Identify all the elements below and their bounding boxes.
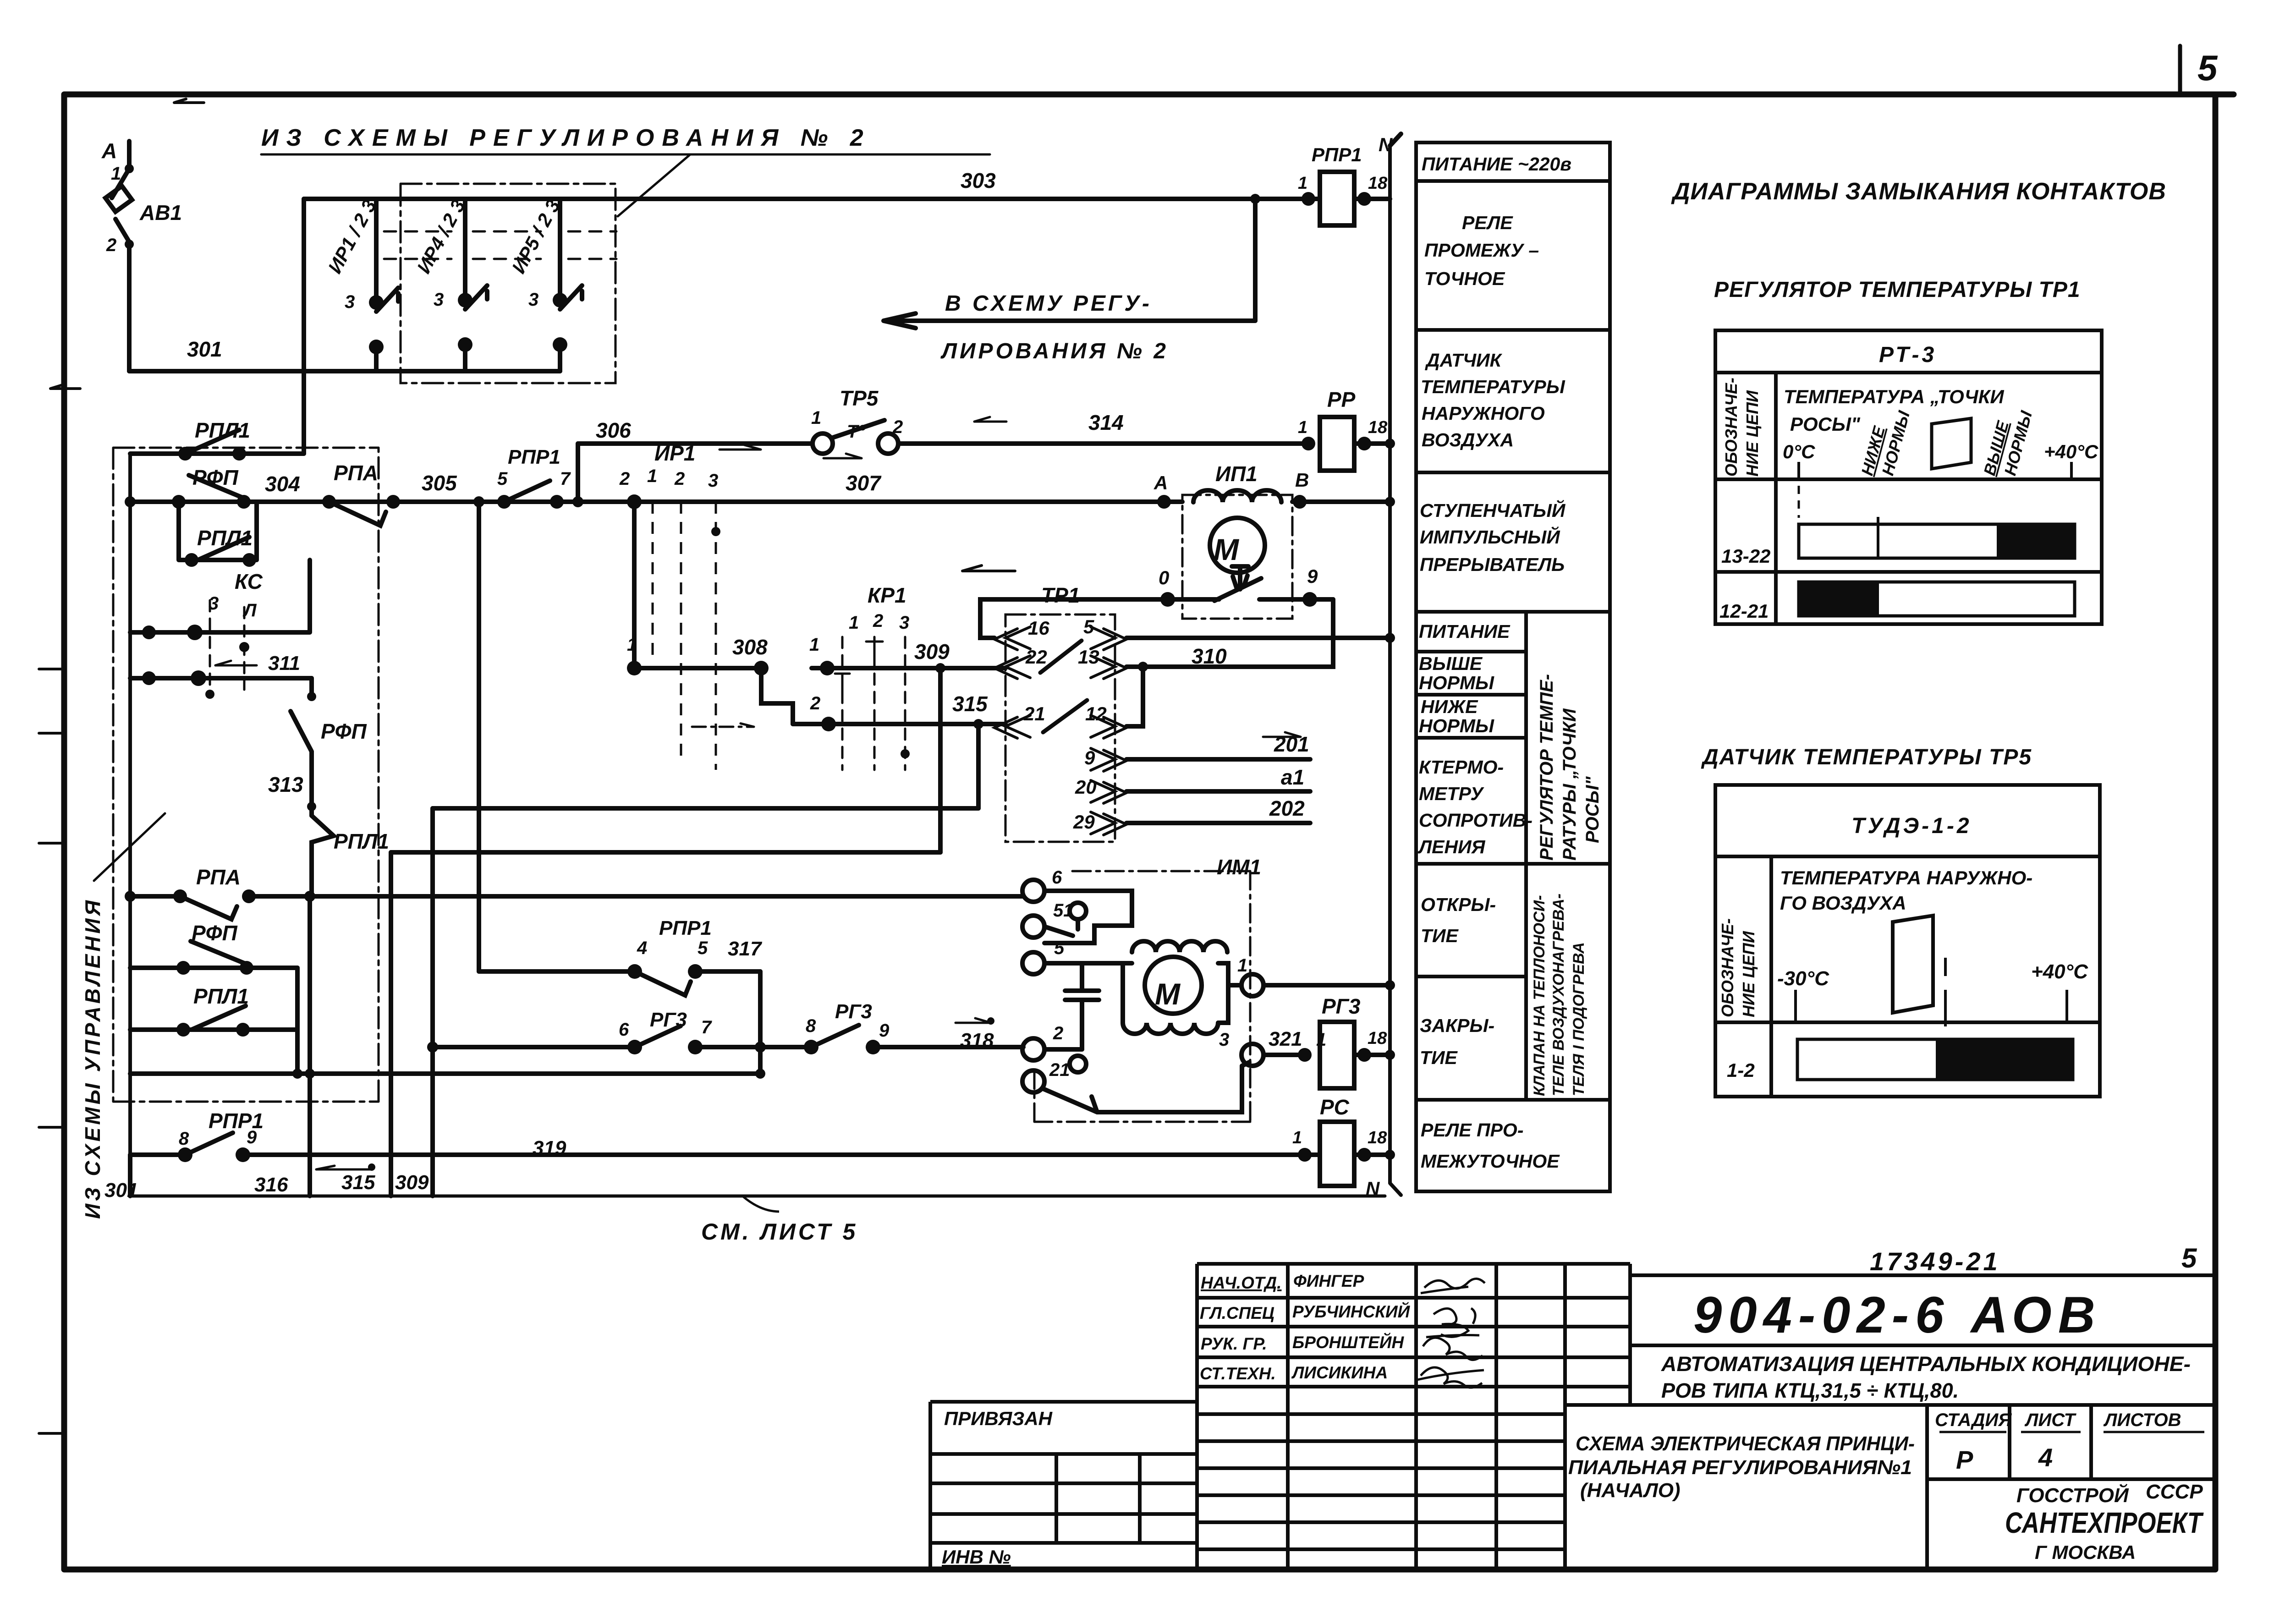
breaker AB1	[105, 169, 132, 242]
contact 12-21 bar	[1799, 582, 2075, 616]
svg-text:В СХЕМУ РЕГУ-: В СХЕМУ РЕГУ-	[945, 291, 1152, 316]
svg-text:6: 6	[1052, 867, 1062, 888]
wire 308	[634, 666, 761, 670]
N line top tick	[1390, 134, 1401, 146]
svg-text:ИМПУЛЬСНЫЙ: ИМПУЛЬСНЫЙ	[1420, 526, 1560, 548]
wire 303 junction drop	[1253, 199, 1258, 321]
leader line to note	[618, 155, 690, 216]
svg-text:СМ. ЛИСТ 5: СМ. ЛИСТ 5	[701, 1219, 858, 1245]
svg-text:А: А	[1153, 472, 1168, 494]
svg-text:+40°С: +40°С	[2044, 441, 2098, 462]
svg-text:21: 21	[1023, 703, 1045, 724]
svg-text:201: 201	[1274, 732, 1309, 756]
308 jog down	[761, 668, 793, 724]
svg-text:ГО ВОЗДУХА: ГО ВОЗДУХА	[1780, 892, 1906, 914]
svg-text:РЕЛЕ ПРО-: РЕЛЕ ПРО-	[1421, 1119, 1523, 1141]
svg-text:20: 20	[1075, 776, 1097, 798]
contact RG3 8-9 / 318	[760, 1025, 1023, 1047]
svg-text:СТУПЕНЧАТЫЙ: СТУПЕНЧАТЫЙ	[1420, 499, 1566, 521]
svg-text:СОПРОТИВ-: СОПРОТИВ-	[1419, 810, 1532, 831]
chevron 21	[994, 715, 1030, 738]
svg-text:ТУДЭ-1-2: ТУДЭ-1-2	[1851, 814, 1972, 838]
left bus vertical	[128, 454, 132, 1196]
relay coil PP	[1320, 417, 1354, 471]
terminal 51	[1022, 916, 1044, 938]
chevron 5 out	[1091, 627, 1126, 650]
svg-text:СССР: СССР	[2146, 1481, 2203, 1503]
svg-text:ЛИРОВАНИЯ № 2: ЛИРОВАНИЯ № 2	[940, 339, 1169, 363]
wire 306	[578, 441, 813, 446]
svg-text:3: 3	[708, 471, 718, 491]
svg-text:КТЕРМО-: КТЕРМО-	[1419, 757, 1504, 778]
heater stepped outline	[1044, 891, 1132, 943]
relay coil RG3	[1320, 1022, 1354, 1088]
IR1 contact column	[376, 199, 398, 371]
svg-text:РПА: РПА	[334, 461, 378, 485]
interrupter contact	[1214, 566, 1261, 601]
svg-text:САНТЕХПРОЕКТ: САНТЕХПРОЕКТ	[2005, 1506, 2204, 1539]
arrow 315 bottom	[316, 1166, 372, 1169]
svg-text:НАЧ.ОТД.: НАЧ.ОТД.	[1201, 1273, 1281, 1292]
svg-text:ЛИСТ: ЛИСТ	[2024, 1410, 2077, 1430]
svg-text:ФИНГЕР: ФИНГЕР	[1293, 1272, 1364, 1290]
motor coil top	[1123, 941, 1227, 963]
svg-text:1: 1	[811, 408, 821, 428]
wire 310	[1126, 599, 1333, 667]
wire 202	[1126, 821, 1310, 825]
svg-text:а1: а1	[1281, 765, 1304, 789]
svg-text:РПР1: РПР1	[1312, 144, 1362, 165]
svg-text:ОБОЗНАЧЕ-: ОБОЗНАЧЕ-	[1722, 378, 1741, 477]
wire 318 long row	[130, 1071, 760, 1076]
KS dashed columns	[210, 600, 244, 690]
svg-text:РОСЫ": РОСЫ"	[1582, 776, 1603, 843]
wire 2 into box	[1044, 1047, 1082, 1052]
svg-text:ВОЗДУХА: ВОЗДУХА	[1422, 429, 1514, 450]
KP1 row 2 / 315	[793, 722, 1005, 726]
svg-text:8: 8	[806, 1016, 816, 1036]
small circle 51	[1070, 903, 1086, 919]
svg-text:РПЛ1: РПЛ1	[197, 526, 253, 550]
svg-text:СТАДИЯ: СТАДИЯ	[1935, 1410, 2012, 1430]
svg-text:ЛИСИКИНА: ЛИСИКИНА	[1291, 1363, 1388, 1382]
svg-text:Т°: Т°	[847, 422, 866, 442]
thermal contact TP5	[813, 433, 833, 454]
svg-text:ГЛ.СПЕЦ: ГЛ.СПЕЦ	[1200, 1304, 1274, 1322]
contact RPR1 5-7	[504, 481, 557, 502]
IR block dash-dot box	[401, 184, 615, 383]
title block main frame	[1630, 1264, 2215, 1405]
small circle 21	[1070, 1056, 1086, 1072]
svg-text:5: 5	[698, 938, 708, 958]
svg-text:2: 2	[873, 611, 883, 631]
wire A into block	[1164, 499, 1182, 504]
chevron 22	[994, 656, 1030, 679]
contact RPL1 row1	[130, 430, 304, 454]
svg-text:309: 309	[395, 1171, 429, 1194]
privyazan box	[930, 1402, 1197, 1569]
315 drop	[976, 724, 981, 808]
wire 314	[898, 441, 1308, 446]
svg-text:3: 3	[528, 290, 538, 310]
svg-text:НИЕ ЦЕПИ: НИЕ ЦЕПИ	[1743, 390, 1762, 477]
terminal 5	[1022, 952, 1044, 974]
wire 303 top	[304, 197, 1308, 201]
svg-text:N: N	[1366, 1178, 1380, 1199]
svg-text:307: 307	[846, 471, 882, 495]
svg-text:РЕЛЕ: РЕЛЕ	[1462, 212, 1513, 233]
TP1 dash-dot box	[1005, 614, 1115, 842]
vertical 317 from main row	[477, 502, 481, 971]
contact RFP main row	[179, 475, 244, 502]
svg-text:1: 1	[1298, 174, 1307, 193]
svg-text:ТОЧНОЕ: ТОЧНОЕ	[1424, 268, 1505, 289]
motor M circle	[1210, 518, 1265, 573]
wire 311 row	[130, 676, 312, 680]
svg-text:7: 7	[701, 1017, 712, 1037]
stage columns	[1927, 1405, 2091, 1569]
svg-text:0: 0	[1159, 567, 1169, 588]
row lines	[1416, 181, 1610, 1100]
svg-text:М: М	[1155, 977, 1181, 1011]
svg-text:ПИТАНИЕ: ПИТАНИЕ	[1419, 621, 1511, 642]
wire 305	[393, 499, 504, 504]
wire B to N	[1292, 499, 1390, 504]
relay coil RPR1	[1320, 172, 1354, 225]
wire 304	[244, 499, 329, 504]
svg-text:РТ-3: РТ-3	[1879, 343, 1937, 367]
svg-text:4: 4	[2038, 1443, 2053, 1472]
svg-text:РОСЫ": РОСЫ"	[1790, 413, 1861, 435]
bottom line to sheet 5	[130, 1195, 1385, 1198]
svg-text:ИНВ №: ИНВ №	[942, 1546, 1011, 1568]
svg-text:МЕЖУТОЧНОЕ: МЕЖУТОЧНОЕ	[1421, 1151, 1560, 1172]
scale ticks TUDE	[1796, 958, 2067, 1026]
svg-text:12: 12	[1085, 703, 1107, 724]
svg-text:ЗАКРЫ-: ЗАКРЫ-	[1420, 1015, 1494, 1036]
IR block dashed rows	[384, 231, 616, 259]
parallelogram symbol PT3	[1932, 418, 1971, 469]
svg-text:ТЕЛЯ I ПОДОГРЕВА: ТЕЛЯ I ПОДОГРЕВА	[1570, 942, 1587, 1096]
svg-text:ТР5: ТР5	[840, 386, 879, 410]
svg-text:ИП1: ИП1	[1215, 462, 1258, 486]
svg-text:ВЫШЕ: ВЫШЕ	[1419, 653, 1483, 674]
wire H1 315	[433, 806, 978, 811]
junction dots top-left	[125, 164, 134, 173]
signature rows text	[1200, 1272, 1411, 1383]
svg-text:1: 1	[111, 164, 121, 184]
svg-text:904-02-6 АОВ: 904-02-6 АОВ	[1693, 1286, 2102, 1344]
svg-text:1: 1	[647, 466, 657, 486]
svg-text:2: 2	[892, 417, 903, 437]
wire 301	[129, 369, 560, 373]
contact RFP row2	[130, 941, 297, 968]
contact RFP chain	[291, 678, 312, 807]
wire 5 row to N	[1126, 636, 1390, 640]
main row segment left	[130, 499, 179, 504]
svg-text:2: 2	[106, 235, 116, 255]
motor frame	[1082, 963, 1228, 1023]
svg-text:ИМ1: ИМ1	[1217, 855, 1261, 879]
svg-text:НОРМЫ: НОРМЫ	[1419, 715, 1494, 736]
svg-text:311: 311	[268, 652, 300, 675]
svg-text:1-2: 1-2	[1727, 1059, 1755, 1081]
dash-dot arrow 308	[692, 722, 754, 727]
svg-text:9: 9	[1307, 565, 1318, 587]
inner divider	[1524, 612, 1528, 1100]
svg-text:ПРЕРЫВАТЕЛЬ: ПРЕРЫВАТЕЛЬ	[1420, 554, 1565, 575]
svg-text:СТ.ТЕХН.: СТ.ТЕХН.	[1200, 1364, 1276, 1383]
svg-text:4: 4	[637, 938, 647, 958]
terminal 1	[1241, 974, 1263, 996]
svg-text:29: 29	[1073, 811, 1095, 833]
svg-text:ДИАГРАММЫ ЗАМЫКАНИЯ КОНТАКТОВ: ДИАГРАММЫ ЗАМЫКАНИЯ КОНТАКТОВ	[1671, 178, 2166, 205]
svg-text:НАРУЖНОГО: НАРУЖНОГО	[1422, 403, 1545, 424]
IR4 contact column	[465, 199, 487, 371]
svg-text:16: 16	[1028, 617, 1049, 639]
contact RG3 6-7	[433, 1026, 760, 1047]
svg-text:2: 2	[674, 469, 685, 489]
vertical 313 chain to bottom	[308, 896, 312, 1196]
wire 16 to 0-node	[980, 599, 1157, 638]
riser 306	[576, 444, 580, 502]
svg-text:РПЛ1: РПЛ1	[334, 829, 389, 853]
svg-text:ТИЕ: ТИЕ	[1420, 1047, 1458, 1068]
IR5 contact column	[560, 199, 582, 371]
svg-text:(НАЧАЛО): (НАЧАЛО)	[1580, 1479, 1681, 1502]
wire 12 riser to 310	[1126, 667, 1143, 726]
svg-text:9: 9	[1084, 747, 1095, 768]
svg-text:8: 8	[179, 1129, 189, 1149]
svg-text:Л: Л	[242, 600, 257, 620]
N vertical line	[1390, 146, 1401, 1195]
svg-text:1: 1	[849, 613, 859, 633]
scale ticks PT3	[1799, 462, 2071, 479]
svg-text:РПЛ1: РПЛ1	[193, 984, 249, 1008]
svg-text:РУК. ГР.: РУК. ГР.	[1201, 1334, 1267, 1353]
svg-text:ТЕМПЕРАТУРА „ТОЧКИ: ТЕМПЕРАТУРА „ТОЧКИ	[1784, 386, 2004, 407]
arrow line to scheme N2	[884, 313, 1255, 328]
wire 21 branch to 3	[1097, 1066, 1242, 1112]
svg-text:ПИТАНИЕ ~220в: ПИТАНИЕ ~220в	[1422, 154, 1571, 175]
svg-text:ЛИСТОВ: ЛИСТОВ	[2103, 1410, 2181, 1430]
signatures squiggles	[1415, 1278, 1485, 1388]
svg-text:ПРИВЯЗАН: ПРИВЯЗАН	[944, 1408, 1053, 1429]
svg-text:318: 318	[960, 1029, 994, 1052]
svg-text:310: 310	[1192, 644, 1227, 668]
svg-text:ТЕМПЕРАТУРЫ: ТЕМПЕРАТУРЫ	[1421, 376, 1565, 397]
svg-text:0°С: 0°С	[1783, 441, 1815, 462]
direction arrow	[962, 565, 1015, 571]
KP1 row 1 / 309	[812, 666, 1005, 670]
svg-text:РГ3: РГ3	[650, 1009, 687, 1031]
chevron 20 out	[1091, 780, 1126, 803]
svg-text:ОБОЗНАЧЕ-: ОБОЗНАЧЕ-	[1718, 918, 1737, 1017]
IP1 dash-dot box	[1182, 495, 1292, 619]
svg-text:3: 3	[434, 290, 444, 310]
svg-text:18: 18	[1368, 1029, 1387, 1048]
wire 316	[310, 894, 1023, 899]
contact RPA row 316	[130, 896, 310, 919]
parallelogram symbol TUDE	[1893, 916, 1933, 1013]
terminal 3	[1241, 1044, 1263, 1066]
KP1 T symbols	[835, 642, 883, 694]
svg-text:306: 306	[596, 418, 631, 442]
svg-text:3: 3	[899, 613, 909, 633]
terminal 6	[1022, 880, 1044, 902]
svg-text:1: 1	[1292, 1128, 1302, 1147]
wire 201	[1126, 757, 1310, 762]
arrow 318	[956, 1018, 991, 1023]
309 drop from KP1 row	[938, 668, 943, 852]
svg-text:22: 22	[1025, 646, 1047, 668]
svg-text:ЛЕНИЯ: ЛЕНИЯ	[1417, 836, 1486, 857]
brace see sheet 5	[742, 1196, 779, 1212]
note underline	[261, 154, 990, 156]
svg-text:1: 1	[627, 635, 637, 655]
svg-text:305: 305	[422, 471, 457, 495]
table frame	[1416, 143, 1610, 1191]
svg-text:2: 2	[810, 693, 820, 713]
motor M2 circle	[1145, 957, 1202, 1014]
node A terminal	[127, 141, 132, 169]
svg-text:1: 1	[1298, 418, 1307, 437]
wire into coil	[1308, 197, 1390, 201]
svg-text:ИЗ СХЕМЫ УПРАВЛЕНИЯ: ИЗ СХЕМЫ УПРАВЛЕНИЯ	[81, 898, 104, 1219]
svg-text:9: 9	[879, 1020, 890, 1041]
contact 21-12	[1043, 700, 1087, 732]
inductor arcs	[1193, 490, 1281, 502]
leader line	[94, 813, 165, 881]
svg-text:3: 3	[209, 593, 219, 614]
terminal 2	[1022, 1038, 1044, 1060]
svg-text:13-22: 13-22	[1721, 545, 1770, 567]
wire H2 309	[391, 850, 940, 855]
svg-text:РР: РР	[1327, 388, 1356, 411]
svg-text:319: 319	[533, 1137, 566, 1159]
svg-text:РФП: РФП	[192, 921, 238, 945]
main row to IP1	[557, 499, 1164, 504]
svg-text:АВТОМАТИЗАЦИЯ ЦЕНТРАЛЬНЫХ КО: АВТОМАТИЗАЦИЯ ЦЕНТРАЛЬНЫХ КОНДИЦИОНЕ-	[1661, 1352, 2191, 1376]
wire from AB1 node 2 down	[127, 242, 132, 371]
junction dots left rows	[178, 447, 192, 461]
direction arrows TP5	[720, 445, 862, 458]
svg-text:РПР1: РПР1	[659, 917, 712, 939]
chevron 29 out	[1091, 812, 1126, 835]
wire 9 node	[1259, 597, 1333, 602]
signature table	[1197, 1262, 1630, 1266]
svg-text:МЕТРУ: МЕТРУ	[1419, 783, 1484, 804]
svg-text:РФП: РФП	[192, 466, 239, 489]
bus to bottom corner	[128, 1155, 132, 1196]
svg-text:315: 315	[952, 692, 988, 716]
svg-text:303: 303	[961, 169, 996, 192]
svg-text:301: 301	[187, 337, 222, 361]
wire a1	[1126, 789, 1310, 794]
riser 317 to RG3 row	[758, 971, 763, 1074]
capacitor	[1044, 963, 1099, 1049]
svg-text:7: 7	[560, 469, 571, 489]
svg-text:3: 3	[345, 292, 355, 312]
svg-text:13: 13	[1078, 646, 1099, 668]
contact RPL1 chain	[312, 816, 334, 896]
svg-text:РАТУРЫ „ТОЧКИ: РАТУРЫ „ТОЧКИ	[1560, 708, 1580, 861]
wire 0 node	[1157, 597, 1219, 602]
svg-text:304: 304	[265, 472, 300, 496]
parallel join vertical	[295, 968, 300, 1074]
svg-text:2: 2	[619, 469, 630, 489]
svg-text:202: 202	[1269, 796, 1305, 820]
svg-text:ОТКРЫ-: ОТКРЫ-	[1421, 894, 1496, 915]
svg-text:+40°С: +40°С	[2031, 960, 2088, 983]
svg-text:3: 3	[1219, 1030, 1229, 1050]
svg-text:18: 18	[1368, 418, 1388, 437]
svg-text:18: 18	[1368, 174, 1388, 193]
svg-text:5: 5	[1054, 938, 1065, 958]
IM1 dash-dot box	[1034, 871, 1250, 1122]
svg-text:6: 6	[619, 1020, 629, 1040]
svg-text:ПИАЛЬНАЯ РЕГУЛИРОВАНИЯ№1: ПИАЛЬНАЯ РЕГУЛИРОВАНИЯ№1	[1568, 1456, 1912, 1479]
contact 21	[1042, 1088, 1097, 1112]
svg-text:РПА: РПА	[196, 865, 241, 889]
svg-text:РФП: РФП	[321, 719, 367, 743]
svg-text:ГОССТРОЙ: ГОССТРОЙ	[2016, 1483, 2129, 1507]
svg-text:СХЕМА ЭЛЕКТРИЧЕСКАЯ ПРИНЦИ-: СХЕМА ЭЛЕКТРИЧЕСКАЯ ПРИНЦИ-	[1576, 1432, 1915, 1455]
riser wire 303-left	[302, 199, 306, 454]
svg-text:309: 309	[914, 640, 950, 664]
IR1 rotated label	[324, 196, 564, 312]
svg-text:РС: РС	[1320, 1095, 1350, 1119]
contact 1-2 bar	[1797, 1039, 2073, 1080]
svg-text:12-21: 12-21	[1719, 600, 1769, 622]
svg-text:308: 308	[732, 635, 768, 659]
svg-text:17349-21: 17349-21	[1870, 1247, 2000, 1276]
svg-text:1: 1	[1237, 955, 1247, 976]
svg-text:313: 313	[268, 773, 303, 796]
svg-text:АВ1: АВ1	[139, 201, 182, 225]
svg-text:РПР1: РПР1	[508, 446, 560, 468]
wire 321	[1263, 1053, 1305, 1057]
svg-text:НОРМЫ: НОРМЫ	[1419, 672, 1494, 693]
svg-text:21: 21	[1049, 1060, 1070, 1080]
dash-dot boundary box	[113, 448, 379, 1102]
svg-text:РЕГУЛЯТОР ТЕМПЕРАТУРЫ ТР1: РЕГУЛЯТОР ТЕМПЕРАТУРЫ ТР1	[1714, 278, 2081, 302]
svg-text:315: 315	[341, 1171, 375, 1194]
svg-text:ТЕМПЕРАТУРА НАРУЖНО-: ТЕМПЕРАТУРА НАРУЖНО-	[1780, 867, 2032, 889]
svg-text:ПРОМЕЖУ –: ПРОМЕЖУ –	[1424, 240, 1539, 261]
svg-text:РГ3: РГ3	[1322, 994, 1361, 1018]
svg-text:КС: КС	[235, 570, 263, 593]
svg-text:314: 314	[1088, 411, 1124, 434]
terminal 21	[1022, 1070, 1044, 1092]
svg-text:НИЖЕ: НИЖЕ	[1421, 696, 1478, 717]
svg-text:Р: Р	[1956, 1445, 1973, 1474]
svg-text:Г МОСКВА: Г МОСКВА	[2035, 1542, 2136, 1563]
svg-text:ТИЕ: ТИЕ	[1421, 925, 1459, 946]
motor coil bottom	[1123, 1023, 1218, 1034]
svg-text:ТЕЛЕ ВОЗДУХОНАГРЕВА-: ТЕЛЕ ВОЗДУХОНАГРЕВА-	[1550, 894, 1567, 1096]
chevron 13 out	[1091, 656, 1126, 679]
svg-text:N: N	[1379, 134, 1393, 155]
contact RPA main row	[329, 502, 393, 526]
svg-text:ДАТЧИК: ДАТЧИК	[1425, 350, 1503, 371]
column 2 drop to 308	[632, 502, 637, 668]
svg-text:316: 316	[254, 1174, 288, 1196]
svg-text:ТР1: ТР1	[1041, 583, 1080, 607]
svg-text:9: 9	[247, 1127, 257, 1147]
contact 22-13	[1040, 641, 1082, 673]
svg-text:РЕГУЛЯТОР ТЕМПЕ-: РЕГУЛЯТОР ТЕМПЕ-	[1537, 674, 1557, 861]
